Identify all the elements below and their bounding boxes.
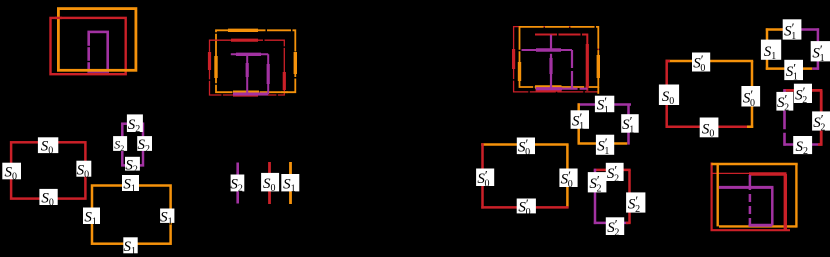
label S'1 left of fig5 S'1 square: [571, 110, 589, 132]
label S'2 left of fig5 S'2 square: [588, 172, 607, 195]
label S1 middle line: [281, 174, 299, 195]
fig5 S'0 right orange edge: [566, 145, 569, 208]
label S0 right of red square: [76, 161, 91, 181]
label S'0 bottom of fig5 square: [517, 196, 536, 218]
fig1 purple rectangle: [89, 32, 108, 72]
mid orange line S1: [289, 162, 292, 204]
fig8 red thin top line: [712, 172, 750, 174]
label S'1 right of fig7a square: [811, 41, 830, 64]
svg-text:S′1: S′1: [786, 61, 798, 83]
fig3 purple square S2: [122, 124, 143, 166]
fig2 orange over red crossing patch bottom-right: [281, 91, 288, 93]
label S'0 top of fig6 square: [692, 52, 710, 74]
fig2 purple bottom horizontal: [233, 93, 268, 96]
fig4 orange right edge overshoot: [597, 87, 599, 94]
svg-text:S′1: S′1: [784, 20, 796, 42]
svg-text:S′2: S′2: [813, 112, 825, 134]
label S1 bottom of orange square: [123, 237, 137, 257]
label s2 left of purple square (small): [113, 136, 127, 153]
svg-text:S′1: S′1: [572, 110, 584, 132]
svg-text:S′1: S′1: [622, 114, 634, 136]
fig2 purple middle vertical dashed: [246, 54, 248, 94]
fig6 top-left red tick: [666, 60, 671, 63]
fig4 purple bottom thick dash: [536, 87, 562, 90]
fig5 S'0 top orange edge: [481, 143, 568, 146]
svg-text:S′0: S′0: [477, 167, 489, 189]
fig4 red outer rectangle thin: [514, 27, 599, 92]
fig7b right red edge: [820, 90, 823, 145]
fig5 S'0 left red edge: [481, 143, 484, 208]
fig6 bottom red edge: [666, 125, 751, 128]
label S0 left of fig6 square: [659, 85, 679, 108]
label S'2 top of fig5 S'2 square: [606, 162, 624, 184]
fig8 purple top horizontal: [719, 186, 774, 189]
fig4 red outer thick dashes: [512, 49, 515, 69]
label S1 left of orange square: [83, 208, 100, 228]
svg-text:S′0: S′0: [518, 196, 530, 218]
fig8 purple middle vertical dashed: [749, 175, 752, 224]
fig2 orange rectangle thin: [216, 30, 295, 92]
label S'0 left of fig5 square: [476, 167, 494, 189]
fig4 purple right vertical: [571, 50, 573, 89]
fig5 S'1 top purple edge: [578, 103, 632, 106]
label S0 bottom of fig6 square: [700, 118, 719, 140]
label S0 left of red square: [2, 163, 21, 183]
fig6 bottom right orange corner: [747, 125, 753, 128]
label S2 middle line: [230, 175, 244, 195]
label S0 bottom of red square: [39, 189, 57, 209]
fig2 red rectangle thin: [210, 40, 285, 95]
label S'0 right of fig5 square: [559, 168, 577, 190]
fig7b left purple edge: [783, 89, 786, 146]
fig5 S'2 top red edge: [594, 169, 631, 172]
fig5 S'1 right purple edge: [627, 105, 630, 145]
fig4 orange rectangle thin: [520, 27, 599, 87]
fig5 S'2 bottom right red corner: [626, 222, 631, 225]
fig2 purple right vertical: [267, 54, 269, 94]
fig8 red thick right edge: [784, 174, 787, 230]
label S2 top of purple square: [127, 114, 143, 134]
svg-text:S′1: S′1: [812, 42, 824, 64]
mid purple line S2: [236, 163, 239, 204]
fig1 red rectangle: [51, 18, 126, 74]
fig7b bottom right red corner: [818, 143, 822, 146]
svg-text:S′2: S′2: [795, 84, 807, 106]
fig4 inner red open rectangle top and right: [535, 35, 587, 91]
mid red line S0: [268, 162, 271, 204]
fig2 red thick dashes: [210, 40, 285, 95]
label S'2 top of fig7b square: [794, 84, 812, 106]
fig8 purple right vertical: [771, 187, 774, 225]
svg-text:S′0: S′0: [561, 168, 573, 190]
svg-text:S′2: S′2: [777, 92, 789, 114]
label S'2 left of fig7b square: [776, 92, 793, 114]
fig3 orange square S1: [92, 186, 171, 244]
fig3 red square S0: [11, 142, 85, 198]
fig4 purple bottom horizontal: [536, 88, 588, 90]
fig5 S'0 bottom red edge: [481, 206, 568, 209]
fig7a bottom right purple part: [812, 67, 819, 70]
fig1 purple left-edge dash gaps: [87, 46, 90, 47]
fig5 S'2 left purple edge: [594, 169, 597, 224]
label S0 middle line: [261, 173, 279, 194]
label S0 top of red square: [38, 137, 58, 156]
fig7a top purple edge: [780, 28, 819, 31]
fig7b top red edge: [783, 89, 822, 92]
svg-text:S′2: S′2: [589, 173, 601, 195]
fig8 orange bottom edge: [719, 225, 796, 227]
fig6 right orange edge: [751, 61, 754, 128]
fig6 left red edge: [665, 60, 668, 128]
fig4 purple top horizontal: [522, 49, 573, 51]
fig4 inner red thick dashes: [536, 44, 588, 90]
fig7a left orange edge: [766, 28, 769, 70]
fig2 orange thick dashes: [216, 30, 295, 92]
fig8 orange left edge: [717, 164, 719, 226]
fig8 red thick top line: [749, 172, 787, 175]
fig1 red over orange crossing patch: [55, 17, 62, 19]
label S1 left of fig7a square: [761, 40, 781, 62]
label S2 bottom of purple square: [125, 157, 140, 176]
label S'2 bottom of fig5 S'2 square: [606, 217, 624, 239]
fig8 orange right edge: [795, 164, 797, 228]
svg-text:S′2: S′2: [628, 193, 640, 215]
svg-text:S′2: S′2: [607, 162, 619, 184]
fig5 S'2 bottom purple edge: [594, 222, 629, 225]
label S2 right of purple square: [137, 136, 152, 155]
fig7a top left orange part: [766, 28, 783, 31]
fig6 top orange edge: [666, 60, 754, 63]
fig5 S'2 right red edge: [628, 170, 631, 223]
fig7a bottom orange edge: [766, 67, 813, 70]
label S'2 right of fig7b square: [812, 111, 830, 133]
fig7b bottom purple edge: [783, 143, 820, 146]
svg-text:S′0: S′0: [518, 136, 530, 158]
label S'0 top of fig5 square: [517, 136, 535, 158]
label S'1 bottom of fig7a square: [784, 60, 803, 83]
fig8 orange top edge: [711, 163, 797, 165]
fig4 orange thick dashes: [520, 55, 599, 87]
label S1 right of orange square: [160, 209, 174, 228]
fig5 S'1 left orange edge: [577, 103, 580, 143]
label S1 top of orange square: [122, 175, 139, 195]
svg-text:S′1: S′1: [597, 94, 609, 116]
fig4 purple middle vertical dashed: [550, 35, 552, 89]
fig2 purple top horizontal: [231, 53, 268, 55]
svg-text:S′0: S′0: [743, 87, 755, 109]
label S'1 right of fig5 S'1 square: [621, 114, 639, 136]
label S'1 top of fig7a square: [783, 19, 802, 42]
svg-text:S′2: S′2: [607, 217, 619, 239]
label S'1 top of fig5 S'1 square: [595, 94, 614, 116]
label S2 bottom of fig7b square: [793, 136, 812, 157]
svg-text:S′0: S′0: [693, 52, 705, 74]
fig8 red bottom edge: [711, 229, 791, 231]
fig1 orange rectangle: [58, 9, 135, 71]
fig5 S'1 bottom orange edge: [578, 142, 628, 145]
label S'1 bottom of fig5 S'1 square: [596, 135, 614, 158]
label S'0 right of fig6 square: [741, 86, 760, 109]
label S'2 right of fig5 S'2 square: [626, 192, 645, 215]
fig8 red left edge: [710, 163, 712, 231]
fig7a right purple edge: [817, 28, 820, 70]
svg-text:S′1: S′1: [597, 135, 609, 157]
fig8 purple bottom horizontal: [749, 224, 773, 227]
